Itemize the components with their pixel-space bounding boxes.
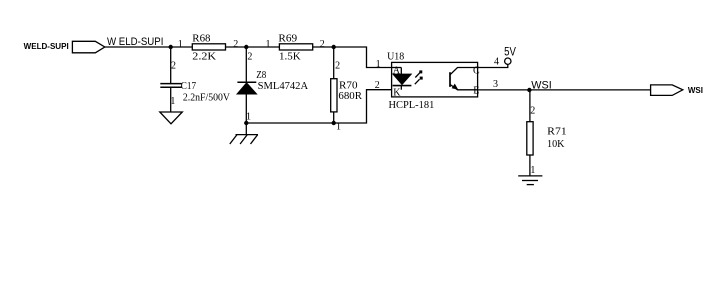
svg-text:W ELD-SUPI: W ELD-SUPI <box>107 36 163 48</box>
wire C17 branch <box>170 47 172 83</box>
svg-text:2.2nF/500V: 2.2nF/500V <box>183 92 230 103</box>
node junction Z8 / rail <box>244 121 248 125</box>
svg-text:5V: 5V <box>504 47 516 59</box>
svg-text:2: 2 <box>335 60 340 71</box>
node junction R70 / rail <box>332 121 336 125</box>
resistor R69 <box>278 34 312 63</box>
node junction 3 <box>332 45 336 49</box>
wire WSI node to flag <box>529 89 650 91</box>
svg-text:SML4742A: SML4742A <box>258 81 309 92</box>
svg-text:10K: 10K <box>547 139 565 150</box>
wire Z8 branch <box>245 47 247 82</box>
wire R70 to rail <box>333 112 335 123</box>
svg-text:1.5K: 1.5K <box>279 52 301 63</box>
U18 LED cathode lead <box>400 86 402 90</box>
earth ground under R71 <box>518 176 542 185</box>
svg-text:R68: R68 <box>192 34 210 45</box>
svg-text:WELD-SUPI: WELD-SUPI <box>24 42 69 51</box>
svg-text:2: 2 <box>320 39 325 50</box>
wire R69 to node 3 <box>313 46 334 48</box>
zener diode Z8 <box>237 70 308 94</box>
wire flag to node 1 <box>105 46 171 48</box>
U18 light emission arrow upper <box>415 70 422 77</box>
wire node 2 to R69 <box>246 46 279 48</box>
svg-text:2: 2 <box>375 80 380 91</box>
svg-text:R69: R69 <box>278 34 297 45</box>
port flag WELD-SUPI <box>72 41 104 53</box>
U18 phototransistor collector <box>450 68 478 75</box>
svg-text:WSI: WSI <box>688 86 703 95</box>
node junction 1 <box>169 45 173 49</box>
svg-text:C17: C17 <box>181 81 196 92</box>
svg-text:2: 2 <box>171 61 176 72</box>
wire U18 pin 3 to WSI node <box>478 89 530 91</box>
wire node 1 to R68 <box>171 46 193 48</box>
wire R68 to node 2 <box>226 46 247 48</box>
port flag WSI <box>651 85 683 96</box>
svg-text:R71: R71 <box>547 127 567 138</box>
wire R71 to ground <box>529 155 531 176</box>
optocoupler U18 <box>387 51 478 111</box>
wire U18 pin 4 to 5V <box>478 64 508 67</box>
svg-text:K: K <box>393 87 401 98</box>
U18 LED cathode bar <box>393 85 412 87</box>
ground (power gnd) under C17 <box>160 112 183 124</box>
svg-text:Z8: Z8 <box>256 70 266 81</box>
svg-text:1: 1 <box>376 59 381 70</box>
svg-text:2: 2 <box>247 52 252 63</box>
svg-text:2: 2 <box>233 39 238 50</box>
svg-text:4: 4 <box>494 56 499 67</box>
U18 phototransistor emitter <box>450 84 478 89</box>
capacitor C17 <box>160 81 230 103</box>
resistor R71 <box>527 122 567 155</box>
svg-text:1: 1 <box>170 96 175 107</box>
svg-text:680R: 680R <box>338 91 362 102</box>
svg-text:3: 3 <box>493 79 498 90</box>
svg-text:E: E <box>473 85 479 96</box>
resistor R70 <box>331 79 362 112</box>
wire rail to chassis ground <box>245 123 247 135</box>
U18 light emission arrow lower <box>415 77 423 85</box>
svg-text:2: 2 <box>530 105 535 116</box>
svg-text:HCPL-181: HCPL-181 <box>389 100 435 111</box>
bottom rail wire to U18 pin 2 <box>246 90 391 123</box>
U18 emitter arrowhead <box>452 84 459 90</box>
U18 LED anode lead <box>392 67 402 69</box>
svg-text:U18: U18 <box>387 51 404 62</box>
wire R71 branch <box>529 90 531 122</box>
wire R70 branch <box>333 47 335 79</box>
node junction 2 <box>244 45 248 49</box>
resistor R68 <box>192 34 225 63</box>
svg-text:1: 1 <box>530 165 535 176</box>
chassis ground under Z8 <box>230 135 258 144</box>
svg-text:2.2K: 2.2K <box>192 52 216 63</box>
power symbol 5V <box>504 47 516 65</box>
wire Z8 to bottom rail <box>245 94 247 123</box>
svg-text:1: 1 <box>266 39 271 50</box>
wire node 3 to U18 pin 1 <box>334 47 392 68</box>
U18 LED triangle <box>393 74 411 84</box>
U18 phototransistor base bar <box>449 72 451 87</box>
svg-text:1: 1 <box>178 39 183 50</box>
node junction WSI <box>527 88 531 92</box>
svg-text:1: 1 <box>246 111 251 122</box>
wire C17 to ground <box>170 87 172 112</box>
